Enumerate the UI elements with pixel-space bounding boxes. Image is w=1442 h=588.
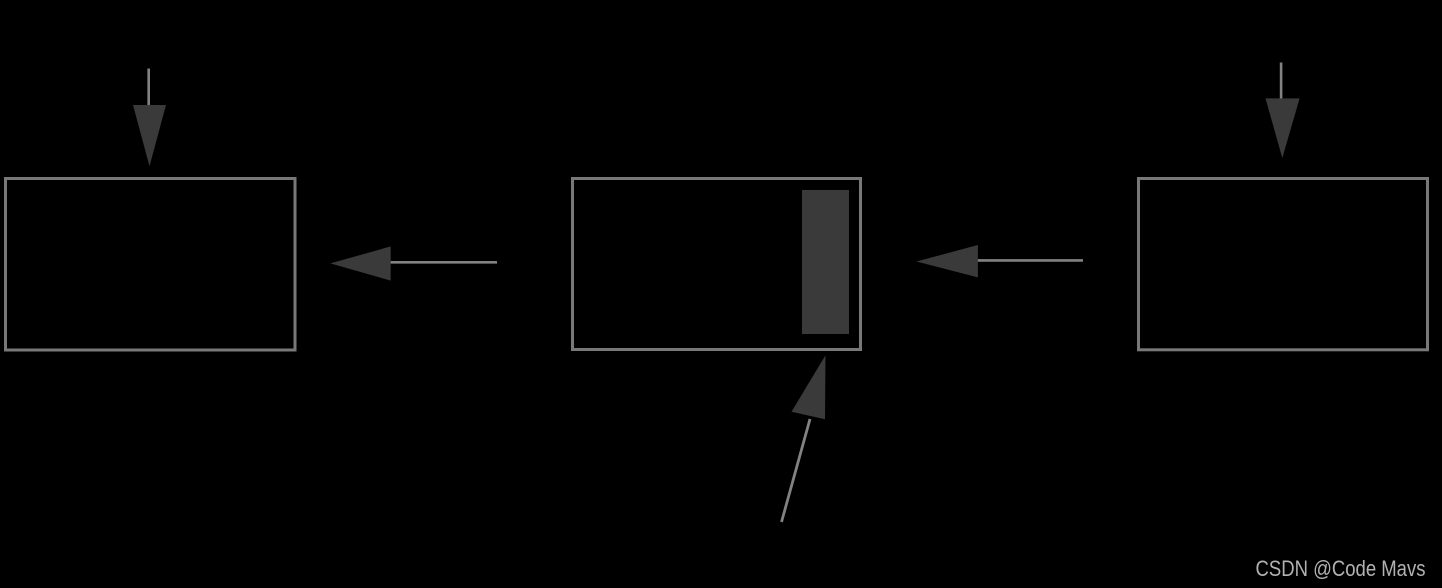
- left box: [6, 179, 296, 351]
- left arrow middle-to-left : shaft: [390, 261, 497, 264]
- filled bar inside middle box: [802, 190, 849, 334]
- watermark text: [1256, 556, 1426, 581]
- left arrow right-to-middle : head: [916, 245, 978, 277]
- down arrow above left box : shaft: [147, 69, 150, 107]
- down arrow above right box : shaft: [1280, 63, 1283, 100]
- diagonal arrow : shaft: [782, 419, 811, 522]
- right box: [1139, 179, 1428, 350]
- svg-text:CSDN @Code Mavs: CSDN @Code Mavs: [1256, 556, 1426, 581]
- left arrow middle-to-left : head: [330, 246, 390, 280]
- left arrow right-to-middle : shaft: [977, 259, 1083, 262]
- diagonal arrow : head: [792, 355, 826, 419]
- down arrow above right box : head: [1266, 98, 1300, 158]
- down arrow above left box : head: [133, 105, 166, 166]
- middle box: [573, 179, 861, 350]
